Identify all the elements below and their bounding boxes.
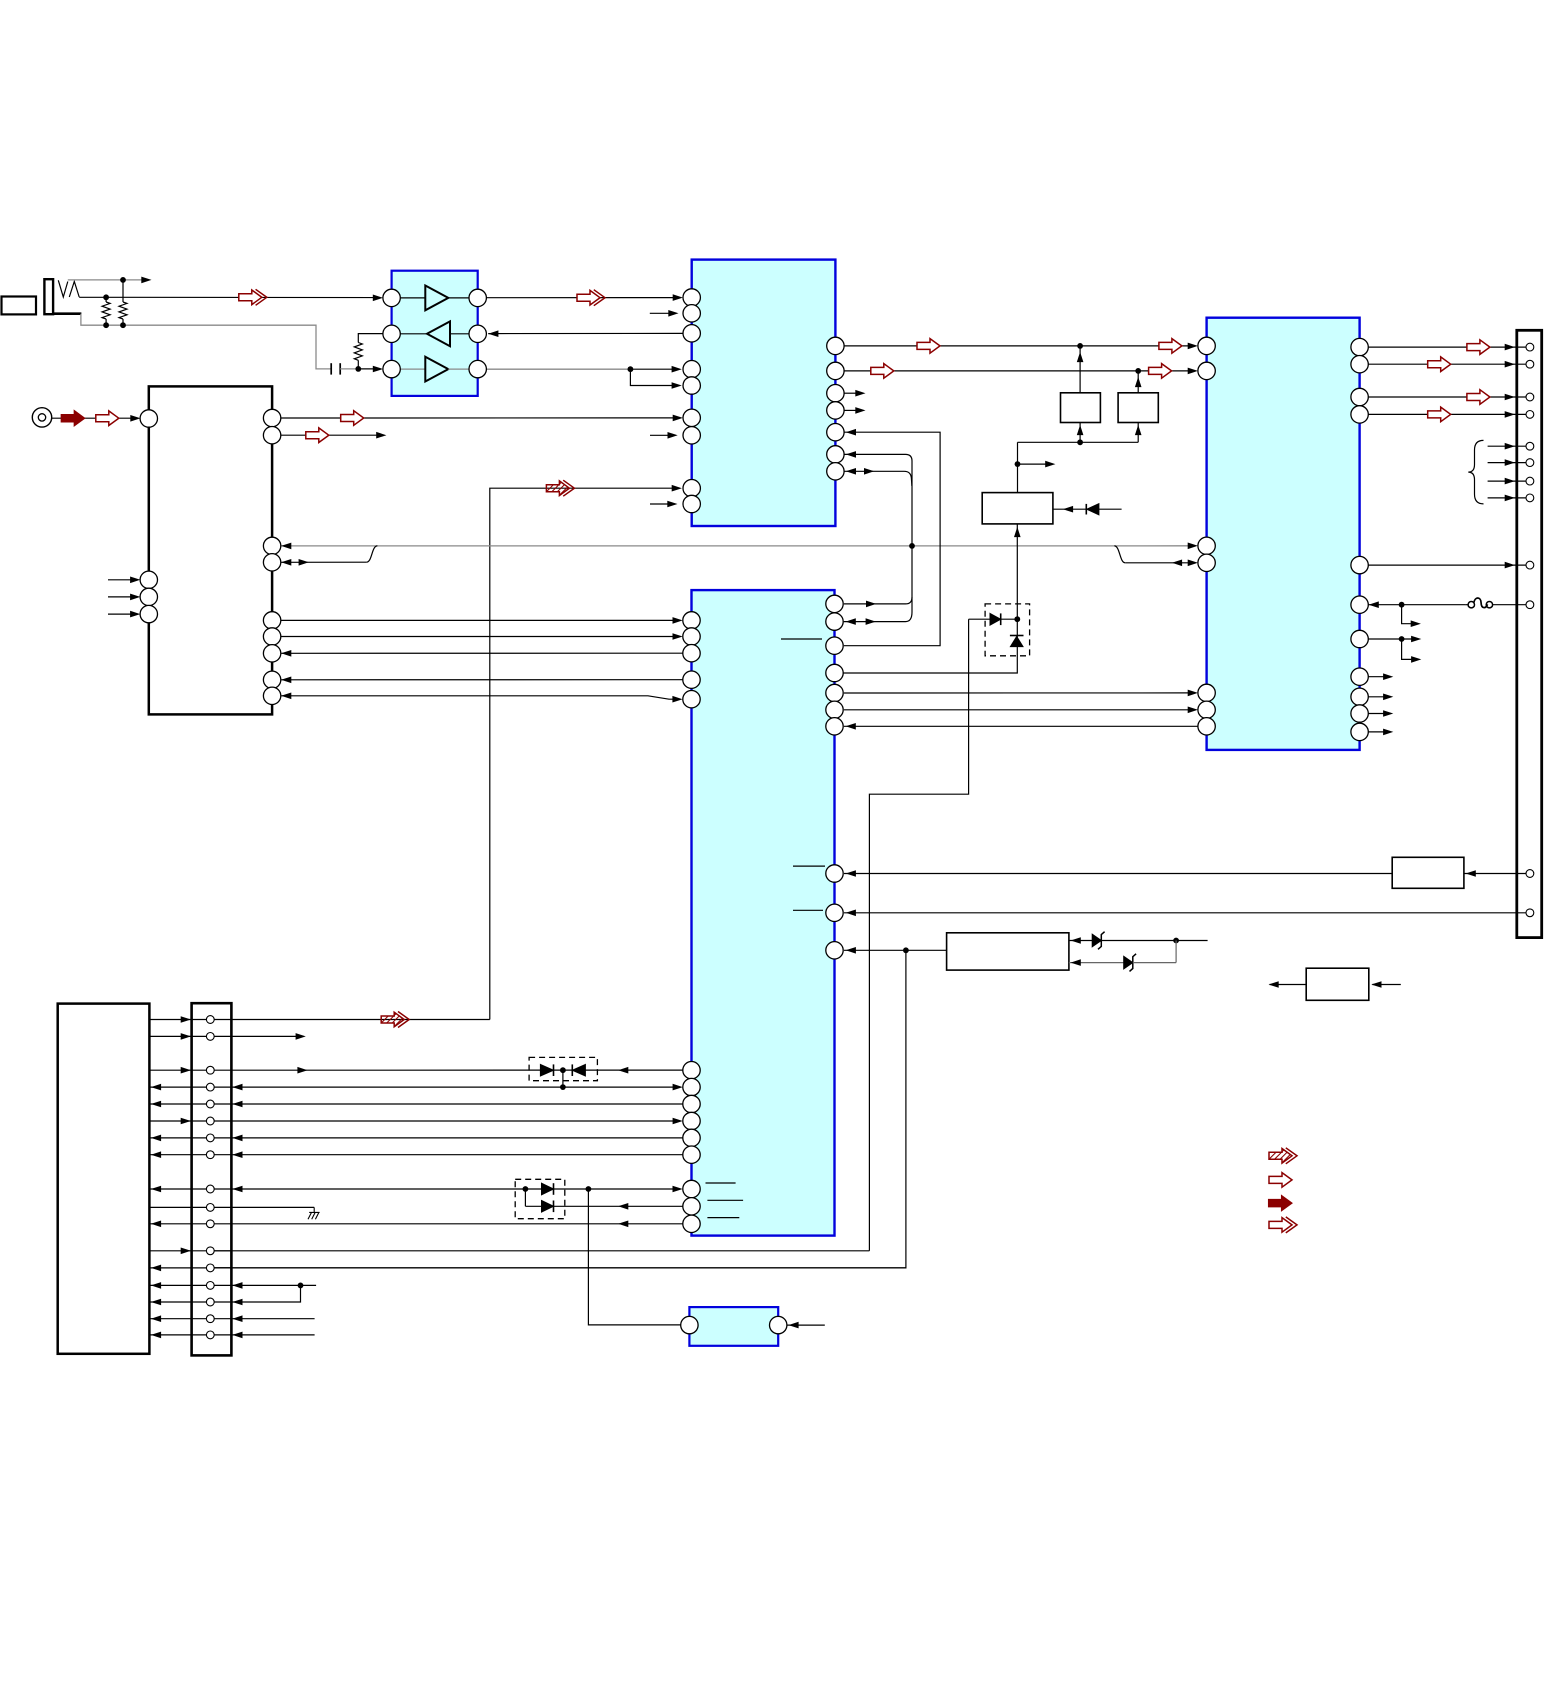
wire row13 long (214, 1267, 906, 1269)
wire key stub b (108, 596, 134, 598)
wire IC602 out6 (1368, 638, 1413, 640)
key/display block (149, 386, 272, 714)
zener diode ZD2 (1124, 956, 1133, 969)
arrow chevron ring (239, 290, 262, 305)
connector bar contacts (1526, 343, 1534, 351)
wire conn internal row 11 (192, 1223, 232, 1225)
phono jack J2 (32, 408, 51, 427)
wire IC601 pin7 stub (650, 434, 670, 436)
wire reset net vertical (843, 524, 1017, 673)
wire out6 branch (1402, 639, 1414, 659)
wire conn internal row 14 (192, 1284, 232, 1286)
wire bus line 1 (281, 619, 675, 621)
wire mech-conn row 13 (149, 1267, 191, 1269)
wire jack tip line (68, 279, 148, 281)
arrow open out1 (1467, 340, 1490, 355)
protection diode dashed box D601 (985, 604, 1030, 656)
wire IC603 row693 to IC602 (844, 692, 1191, 694)
wire row3 clamp line (231, 1069, 683, 1071)
wire row5 (231, 1103, 682, 1105)
wire jack sleeve thick (53, 312, 81, 315)
resistor R3 (358, 334, 383, 343)
wire IC601 pin3 to buffer pin2 (488, 332, 683, 334)
connector CN601 (192, 1003, 232, 1355)
wire IC601 pin2 stub (650, 312, 671, 314)
IC603 right pins (826, 595, 843, 612)
wire mech-conn row 10 (149, 1206, 191, 1208)
wire dcdc net vertical (214, 950, 906, 1268)
buffer amp A3 (triangle) (400, 368, 425, 370)
wire serial S-bend left (366, 546, 377, 562)
wire mech-conn row 15 (149, 1301, 191, 1303)
wire IC602 out2 to bar (1368, 363, 1526, 365)
wire buffer out to IC601 pin1 (486, 297, 675, 299)
arrowhead into conn at 1087.1 (232, 1084, 242, 1091)
clamp diode dashed box D603 (515, 1179, 565, 1218)
wire node to buffer pin3 (358, 368, 376, 370)
wire row1 to vertical (231, 1019, 489, 1021)
wire IC602 stub10 (1368, 731, 1385, 733)
arrowhead into conn at 1318.7 (232, 1315, 242, 1322)
filter box FL1 (1061, 393, 1101, 423)
wire IC602 out1 to bar (1368, 346, 1526, 348)
arrow open phono (96, 411, 119, 426)
legend arrow open (1269, 1173, 1292, 1188)
resistor box R601 (1392, 857, 1464, 888)
diode D603a (542, 1183, 554, 1195)
arrow solid phono (61, 411, 84, 426)
wire key block to IC601 pin6 (281, 417, 676, 419)
wire mech-conn row 4 (149, 1086, 191, 1088)
wire row17 stub (231, 1334, 314, 1336)
wire IC601 pinG join (844, 471, 912, 486)
IC604 small block (cyan) (689, 1307, 778, 1346)
wire brace stub 4 (1488, 497, 1527, 499)
wire serial gray main (281, 545, 1115, 547)
arrow open clk1a (917, 339, 940, 354)
connector CN601 contacts (206, 1016, 214, 1024)
wire serial gray to IC602 pin (1114, 545, 1190, 547)
wire conn internal row 6 (192, 1120, 232, 1122)
wire IC601 pin9 stub (650, 503, 670, 505)
wire branch to IC603 top pin (844, 597, 912, 604)
cassette mechanism block (58, 1004, 150, 1354)
wire filter2 vertical (1137, 371, 1139, 393)
key block right pins (263, 409, 280, 426)
arrow open clk1b (1159, 339, 1182, 354)
wire IC602 stub8 (1368, 696, 1385, 698)
wire mech-conn row 11 (149, 1223, 191, 1225)
arrow chevron buffer out (577, 290, 600, 305)
filter box FL2 (1118, 393, 1158, 423)
wire row2 stub (231, 1035, 298, 1037)
wire row7 (231, 1137, 682, 1139)
wire IC601 pinF to vertical (844, 454, 912, 621)
wire row4 (231, 1086, 675, 1088)
legend arrow chevron (1269, 1218, 1292, 1233)
key block left pins (140, 410, 157, 427)
wire brace stub 2 (1488, 462, 1527, 464)
wire IC602 out5 to bar (1368, 564, 1526, 566)
wire jack ring line (79, 296, 376, 298)
wire conn internal row 10 (192, 1206, 232, 1208)
wire mech-conn row 14 (149, 1284, 191, 1286)
overbar sig5 (707, 1199, 743, 1201)
wire brace stub 3 (1488, 480, 1527, 482)
arrowheads IC603 pin621 (846, 618, 856, 625)
wire mech-conn row 7 (149, 1137, 191, 1139)
wire branch to IC601 pin5 (630, 369, 674, 385)
wire IC603 row710 to IC602 (844, 709, 1191, 711)
IC602 right pins (1351, 338, 1368, 355)
wire conn internal row 16 (192, 1318, 232, 1320)
IC604 pins (681, 1316, 698, 1333)
wire bus line 5 (281, 696, 675, 699)
wire IC601 outD stub (844, 409, 858, 411)
fusible link FB1 (1465, 604, 1468, 606)
wire serial S-bend right (1114, 546, 1125, 563)
wire IC601 pinE net (844, 432, 940, 646)
wire IC602 out4 to bar (1368, 413, 1526, 415)
wire bus line 2 (281, 636, 675, 638)
wire IC602 stub9 (1368, 713, 1385, 715)
wire conn internal row 1 (192, 1019, 232, 1021)
buffer block left pins (383, 289, 400, 306)
wire block5 feed vertical (588, 1189, 681, 1325)
overbar sig1 (781, 638, 822, 640)
wire mute branch (1402, 605, 1414, 624)
wire conn internal row 7 (192, 1137, 232, 1139)
junction dot buffer out (628, 366, 634, 372)
legend arrow solid (1269, 1196, 1292, 1211)
wire IC603 row913 to bar (844, 912, 1526, 914)
wire dcdc outA (1069, 940, 1092, 942)
wire mech-conn row 6 (149, 1120, 191, 1122)
wire mech-conn row 5 (149, 1103, 191, 1105)
wire clock line 2 (844, 370, 1190, 372)
IC603 left pins top (683, 612, 700, 629)
arrowhead into conn at 1334.9 (232, 1332, 242, 1339)
zener diode ZD1 (1092, 934, 1101, 947)
wire vertical net to IC601 pin8 (490, 488, 675, 1019)
IC601 right pins (827, 337, 844, 354)
wire conn internal row 12 (192, 1250, 232, 1252)
buffer amp block IC (cyan) (392, 271, 478, 396)
arrow open clk2a (871, 364, 894, 379)
brace group (1468, 440, 1483, 504)
wire D601 anode branch (869, 619, 968, 1251)
wire IC602 stub7 (1368, 676, 1385, 678)
jack tip contact (58, 280, 68, 297)
IC602 left pins (1198, 337, 1215, 354)
diode D1 (left pointing) (1085, 504, 1087, 515)
headphone jack J1 frame (44, 279, 53, 314)
wire mech-conn row 12 (149, 1250, 191, 1252)
plug body box (2, 297, 37, 315)
arrowhead into conn at 1302.0 (232, 1299, 242, 1306)
diode D601a (right pointing) (969, 618, 990, 620)
buffer amp A1 (triangle) (400, 297, 425, 299)
wire mech-conn row 1 (149, 1019, 191, 1021)
junction dots jack area (120, 277, 126, 283)
wire brace stub 1 (1488, 445, 1527, 447)
wire bus line 4 (281, 679, 683, 681)
junction dot serial (909, 543, 915, 549)
wire resbox to bar (1464, 873, 1526, 875)
wire IC602 pin726 to IC603 (844, 725, 1198, 727)
wire clock line 1 (844, 345, 1190, 347)
wire row12 long (214, 1250, 869, 1252)
wire key block out2 (281, 434, 379, 436)
wire filter bottom feed (1018, 441, 1139, 443)
wire key stub a (108, 579, 134, 581)
IC603 mechanism controller tall block (cyan) (692, 590, 835, 1236)
overbar sig4 (706, 1182, 736, 1184)
wire filter2 bottom (1137, 423, 1139, 443)
arrowhead into conn at 1285.4 (232, 1282, 242, 1289)
wire conn internal row 15 (192, 1301, 232, 1303)
wire conn internal row 2 (192, 1035, 232, 1037)
IC601 system controller block (cyan) (692, 260, 836, 526)
wire D603b to IC603 (554, 1205, 683, 1207)
buffer amp A2 (triangle, left) (400, 333, 427, 335)
wire power in right (1372, 984, 1401, 986)
wire dcdc outB gray (1069, 962, 1124, 964)
wire IC603 row950 to dcdc (844, 949, 947, 951)
capacitor C1 (330, 363, 332, 374)
wire IC602 out3 to bar (1368, 396, 1526, 398)
wire row10 ground (231, 1206, 314, 1208)
diode D603b (524, 1189, 526, 1206)
buffer block right pins (469, 289, 486, 306)
clamp diodes D602 pair (540, 1064, 553, 1076)
wire IC603 row873 to resistor box (844, 873, 1392, 875)
wire mech-conn row 17 (149, 1334, 191, 1336)
wire mech-conn row 2 (149, 1035, 191, 1037)
arrowhead into conn at 1154.7 (232, 1151, 242, 1158)
overbar sig3 (793, 909, 823, 911)
wire row8 (231, 1154, 682, 1156)
arrow open clk2b (1149, 364, 1172, 379)
IC603 left pins bottom (683, 1062, 700, 1079)
arrowhead into conn at 1104.0 (232, 1101, 242, 1108)
wire buffer out3 to node (486, 368, 630, 370)
wire feed corner to reset box (1017, 442, 1019, 492)
wire filter1 bottom (1079, 423, 1081, 443)
wire block5 right stub (787, 1324, 825, 1326)
wire mech-conn row 16 (149, 1318, 191, 1320)
reset IC box (982, 493, 1053, 524)
arrowhead into conn at 1189.0 (232, 1186, 242, 1193)
wire row14-15 bridge (231, 1285, 300, 1302)
jack ring contact (69, 282, 79, 298)
wire jack sleeve run (81, 314, 331, 369)
wire phono to key block (52, 417, 134, 419)
wire stub right of node (1018, 463, 1048, 465)
wire row6 (231, 1120, 675, 1122)
wire conn internal row 5 (192, 1103, 232, 1105)
wire conn internal row 3 (192, 1069, 232, 1071)
wire row11 (231, 1223, 683, 1225)
wire IC601 outC stub (844, 392, 858, 394)
arrowhead into conn at 1137.9 (232, 1135, 242, 1142)
clamp diode dashed box D602 (529, 1057, 597, 1080)
arrow open out4 (1428, 407, 1451, 422)
IC604 right pin (770, 1316, 787, 1333)
wire conn internal row 4 (192, 1086, 232, 1088)
wire row9 diode line (231, 1188, 675, 1190)
wire reset box right (1053, 508, 1086, 510)
wire conn internal row 13 (192, 1267, 232, 1269)
overbar sig6 (707, 1217, 739, 1219)
wire node to IC601 pin4 (630, 368, 674, 370)
DC-DC converter box (947, 933, 1069, 970)
wire cap to node (340, 368, 358, 370)
board-edge connector bar CN602 (1517, 330, 1542, 937)
arrow open out3 (1467, 390, 1490, 405)
wire conn internal row 9 (192, 1188, 232, 1190)
arrow open key1 (341, 411, 364, 426)
wire mech-conn row 3 (149, 1069, 191, 1071)
chassis ground (308, 1207, 320, 1219)
wire row14 stub (231, 1284, 316, 1286)
wire key stub c (108, 613, 134, 615)
wire mech-conn row 9 (149, 1188, 191, 1190)
wire filter1 vertical (1079, 346, 1081, 393)
wire conn internal row 17 (192, 1334, 232, 1336)
diode D601b (up pointing) (1010, 635, 1024, 637)
wire conn internal row 8 (192, 1154, 232, 1156)
arrow open key2 (306, 428, 329, 443)
IC602 audio processor block (cyan) (1207, 318, 1360, 750)
wire IC602 mute line (1368, 604, 1465, 606)
overbar sig2 (793, 865, 825, 867)
power input box (1306, 968, 1369, 1000)
wire power out left (1270, 984, 1307, 986)
wire mech-conn row 8 (149, 1154, 191, 1156)
IC601 left pins (683, 289, 700, 306)
arrow open out2 (1428, 357, 1451, 372)
wire row16 stub (231, 1318, 314, 1320)
resistor R2 (122, 280, 124, 302)
resistor R1 (105, 297, 107, 302)
wire bus line 3 (281, 652, 683, 654)
